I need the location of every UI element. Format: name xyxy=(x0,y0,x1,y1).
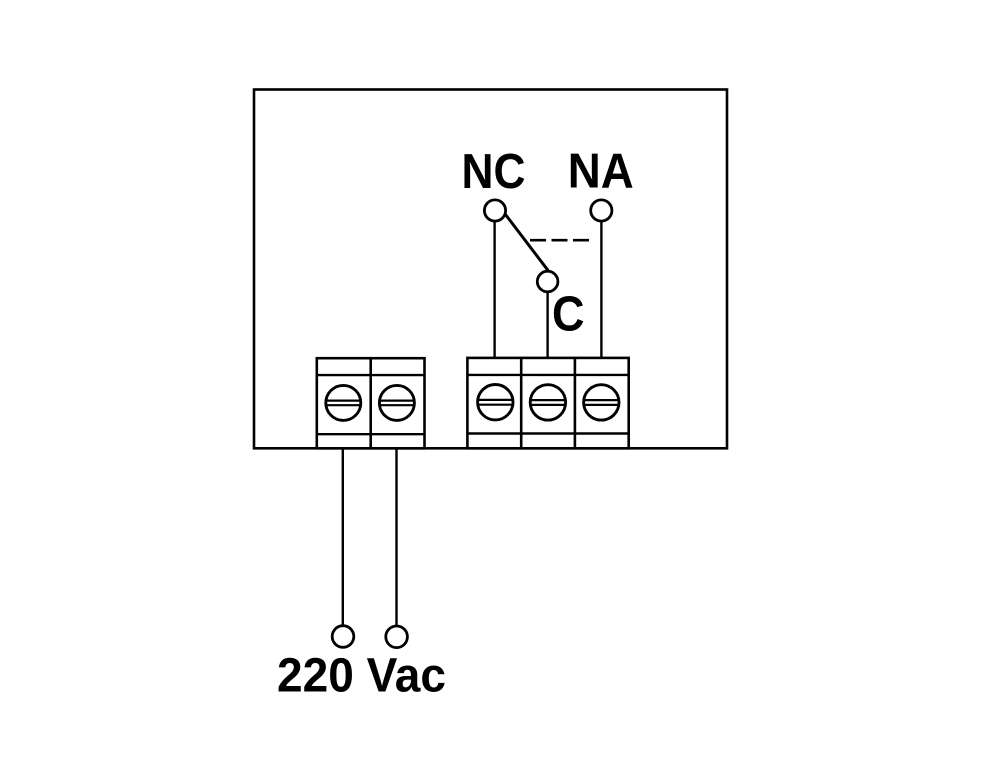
svg-text:220 Vac: 220 Vac xyxy=(277,649,446,703)
svg-text:C: C xyxy=(552,287,585,342)
svg-text:NC: NC xyxy=(462,144,526,199)
svg-text:NA: NA xyxy=(568,144,634,199)
